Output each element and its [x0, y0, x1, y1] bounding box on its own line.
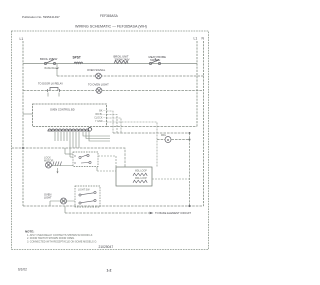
- svg-text:SPST: SPST: [73, 56, 81, 60]
- svg-text:3000W 240V: 3000W 240V: [115, 58, 130, 62]
- wire: row1 rail L1 to L2: [23, 63, 197, 65]
- svg-text:L1: L1: [20, 37, 24, 41]
- switch: contacts inside lock box: [74, 154, 91, 163]
- svg-text:BAKE RELAY: BAKE RELAY: [45, 67, 60, 70]
- wire: row2 rail: [57, 75, 204, 77]
- wire: right N bus: [203, 41, 205, 206]
- wire: stubs below relay: [47, 93, 49, 97]
- junction dot rail y133 right: [189, 132, 191, 134]
- svg-text:BROIL 2580W: BROIL 2580W: [40, 57, 58, 61]
- svg-text:LIGHT: LIGHT: [44, 195, 52, 199]
- element: bake element hump: [74, 62, 83, 64]
- wire: stub arrow below motor: [57, 168, 59, 173]
- svg-text:3. CONNECTED WITH RECEPTACLE O: 3. CONNECTED WITH RECEPTACLE ON SOME MOD…: [27, 240, 97, 243]
- wire: motor to lock box: [52, 165, 74, 167]
- wire: lamp wire: [50, 200, 75, 202]
- junction dot motor wire right: [189, 139, 191, 141]
- svg-text:TO BAKE ELEMENT CIRCUIT: TO BAKE ELEMENT CIRCUIT: [155, 211, 191, 215]
- svg-text:WIRING SCHEMATIC — FEF365ASA (: WIRING SCHEMATIC — FEF365ASA (WH): [75, 25, 147, 29]
- element: zigzag 1 in box: [133, 173, 147, 176]
- wire: vertical joining rails: [64, 206, 66, 213]
- switch: contacts inside light box: [79, 191, 96, 204]
- wire: lock rail y148: [12, 148, 126, 167]
- svg-text:OVEN SIGNAL: OVEN SIGNAL: [87, 68, 106, 72]
- svg-text:L1: L1: [194, 37, 198, 41]
- motor: lock motor circle: [46, 162, 52, 168]
- switch: oven door switch: [149, 58, 160, 65]
- junction dot bottom right: [188, 205, 190, 207]
- wire: stub from lamp to rail: [49, 201, 51, 206]
- junction dot left bus rail: [22, 147, 24, 149]
- svg-text:MDL LOOP: MDL LOOP: [135, 178, 147, 180]
- arrow: to bake element: [150, 212, 154, 215]
- svg-text:Y GND —: Y GND —: [95, 120, 106, 123]
- svg-text:LIGHT SW: LIGHT SW: [78, 188, 90, 191]
- lamp: oven light row lamp: [96, 88, 102, 94]
- wire: bus to EOC left: [23, 113, 33, 115]
- box: oven light switch (dashed): [75, 186, 100, 207]
- wire: motor circuit y139.5: [157, 139, 190, 141]
- wire: EOC pins down from connector: [55, 132, 79, 148]
- wire: left L1 bus: [22, 41, 24, 206]
- wire: EOC right side exits staircase: [107, 111, 158, 167]
- wire: MDL box right exit: [152, 178, 190, 180]
- wire: row3 rail: [23, 90, 204, 92]
- relay: door relay contacts: [48, 88, 60, 93]
- svg-text:MDL: MDL: [161, 134, 167, 137]
- svg-text:21025047: 21025047: [99, 245, 114, 249]
- svg-text:OVEN CONTROL BD: OVEN CONTROL BD: [50, 107, 75, 111]
- svg-text:SWITCH: SWITCH: [150, 58, 160, 62]
- svg-text:TO DOOR LK RELAY: TO DOOR LK RELAY: [38, 81, 63, 85]
- switch: broil relay contacts: [44, 60, 55, 65]
- wire: right L2 bus: [196, 41, 198, 127]
- wire: lock box to MDL box upper: [98, 156, 116, 167]
- element: zigzag 2 in box: [133, 180, 147, 183]
- svg-text:TO OVEN LIGHT: TO OVEN LIGHT: [88, 82, 109, 86]
- wire: long rail y126.5 to L2: [107, 126, 198, 128]
- wire: stub below switch: [56, 64, 58, 69]
- wire: bottom rail B: [65, 212, 149, 214]
- element: broil element zigzag: [114, 61, 128, 64]
- svg-text:6/1/02: 6/1/02: [18, 267, 27, 271]
- box: MDL thermal limiter: [116, 167, 152, 186]
- motor: door lock motor right: [165, 137, 171, 143]
- lamp: oven light bulb: [61, 198, 67, 204]
- svg-text:NOTE:: NOTE:: [25, 230, 34, 234]
- wire: rail y133: [113, 132, 190, 134]
- wire: lock box to MDL box lower: [96, 167, 98, 171]
- lamp: oven signal light: [96, 73, 102, 79]
- svg-text:FEF365ASA: FEF365ASA: [100, 14, 119, 18]
- svg-text:MDL LOOP: MDL LOOP: [135, 171, 147, 173]
- wire: vertical x189.5 down to bottom rail: [189, 133, 191, 206]
- wire: verticals from rail into lock area: [64, 148, 66, 154]
- wire: bottom rail A: [23, 205, 204, 207]
- element: hatch marks beside motor: [53, 162, 62, 167]
- connector: EOC plug squiggles: [48, 128, 92, 131]
- schematic frame: [12, 31, 209, 250]
- wire: EOC pin corners to right: [83, 132, 110, 141]
- wire: drop from row1 to row2: [56, 70, 58, 76]
- box: door lock switch (dashed): [73, 152, 98, 167]
- svg-text:Publication No. 5995441497: Publication No. 5995441497: [22, 15, 60, 19]
- box: electronic oven control: [33, 104, 107, 127]
- svg-text:1-2: 1-2: [107, 269, 112, 273]
